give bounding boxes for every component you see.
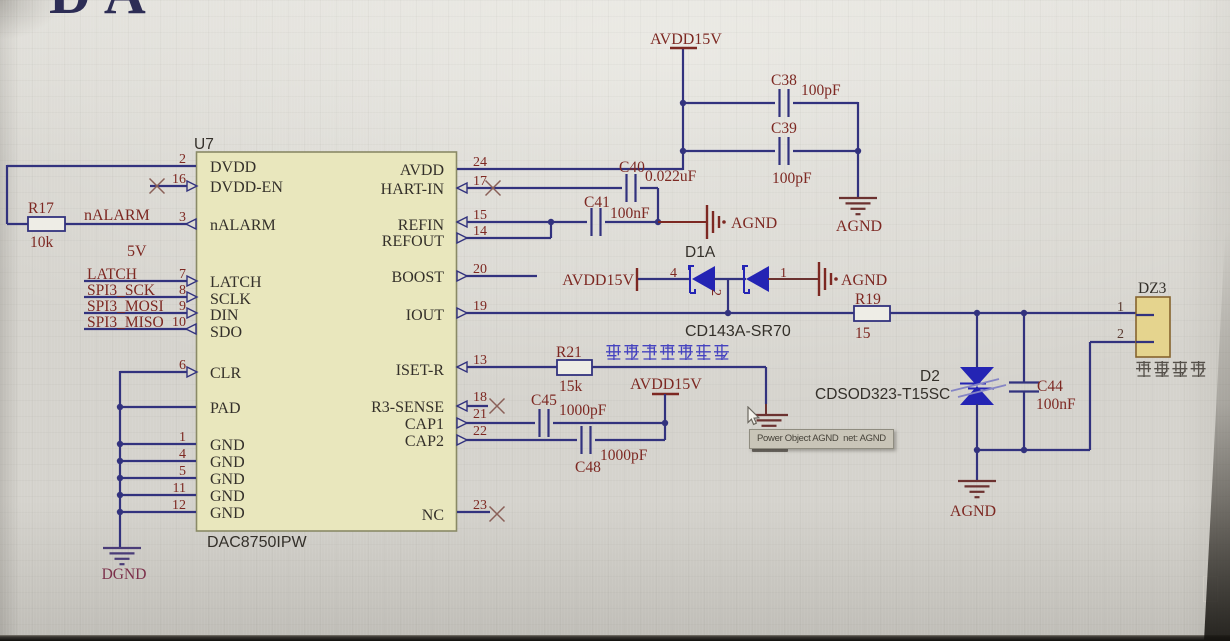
svg-text:SDO: SDO bbox=[210, 324, 242, 341]
wire R17 to pin3 nALARM bbox=[65, 223, 196, 225]
junction AVDD/C38 bbox=[680, 100, 686, 106]
svg-text:GND: GND bbox=[210, 454, 245, 471]
value DAC8750IPW bbox=[207, 534, 307, 551]
svg-text:7: 7 bbox=[179, 267, 186, 282]
svg-text:20: 20 bbox=[473, 262, 487, 277]
R17 value 10k bbox=[30, 234, 54, 251]
pin15 input arrow bbox=[457, 217, 467, 227]
net label SPI3_SCK bbox=[87, 282, 156, 299]
junction IOUT/D2 bbox=[974, 310, 980, 316]
resistor R19 bbox=[854, 306, 890, 321]
svg-text:DGND: DGND bbox=[102, 566, 147, 583]
svg-text:NC: NC bbox=[422, 507, 444, 524]
connector DZ3 body bbox=[1136, 297, 1170, 357]
AGND label top right bbox=[836, 218, 882, 235]
net label SPI3_MOSI bbox=[87, 298, 164, 315]
R17 designator bbox=[28, 200, 54, 217]
svg-text:ISET-R: ISET-R bbox=[396, 362, 445, 379]
designator U7 bbox=[194, 136, 214, 153]
svg-text:18: 18 bbox=[473, 390, 487, 405]
svg-text:100nF: 100nF bbox=[610, 205, 650, 222]
pin22 output arrow bbox=[457, 435, 467, 445]
wire pin19 IOUT long bbox=[457, 312, 1136, 314]
power port AVDD15V top bbox=[650, 31, 722, 48]
capacitor C44 (vertical) bbox=[1009, 313, 1039, 450]
R21 designator bbox=[556, 344, 582, 361]
R21 value 15k bbox=[559, 378, 583, 395]
svg-text:4: 4 bbox=[670, 266, 677, 281]
mouse cursor bbox=[746, 406, 766, 430]
tooltip Power Object AGND bbox=[749, 429, 894, 449]
svg-text:IOUT: IOUT bbox=[406, 307, 444, 324]
wire pin23 NC stub bbox=[457, 511, 490, 513]
svg-text:R19: R19 bbox=[855, 291, 881, 308]
net label LATCH bbox=[87, 266, 137, 283]
svg-text:24: 24 bbox=[473, 155, 487, 170]
svg-text:GND: GND bbox=[210, 488, 245, 505]
ground bus vertical wire bbox=[119, 371, 121, 548]
D1A pin2 number (rotated) bbox=[708, 289, 723, 296]
svg-text:nALARM: nALARM bbox=[210, 217, 276, 234]
svg-text:REFIN: REFIN bbox=[398, 217, 445, 234]
R19 value 15 bbox=[855, 325, 871, 342]
svg-text:17: 17 bbox=[473, 174, 487, 189]
DZ3 pin1 stub bbox=[1136, 314, 1154, 316]
U7 left pin numbers bbox=[172, 152, 186, 513]
svg-text:DVDD-EN: DVDD-EN bbox=[210, 179, 283, 196]
resistor R21 bbox=[557, 360, 592, 375]
svg-text:10: 10 bbox=[172, 315, 186, 330]
wire D2 stem bottom bbox=[976, 404, 978, 450]
svg-text:9: 9 bbox=[179, 299, 186, 314]
svg-text:15: 15 bbox=[855, 325, 871, 342]
svg-text:14: 14 bbox=[473, 224, 487, 239]
svg-text:3: 3 bbox=[179, 210, 186, 225]
pin18 input arrow bbox=[457, 401, 467, 411]
svg-text:1000pF: 1000pF bbox=[600, 447, 648, 464]
wire AVDD15V stem to caps bbox=[664, 394, 666, 440]
svg-text:U7: U7 bbox=[194, 136, 214, 153]
svg-text:10k: 10k bbox=[30, 234, 54, 251]
C41 value 100nF bbox=[610, 205, 650, 222]
AGND label (D1A row) bbox=[841, 272, 887, 289]
pin19 output arrow bbox=[457, 308, 467, 318]
wire pin6 CLR bbox=[120, 371, 196, 373]
svg-text:GND: GND bbox=[210, 505, 245, 522]
ground AGND (under cursor) bbox=[750, 415, 788, 431]
TVS diode D2 bbox=[951, 367, 1006, 405]
svg-text:nALARM: nALARM bbox=[84, 207, 150, 224]
C45 designator bbox=[531, 392, 557, 409]
svg-text:12: 12 bbox=[172, 498, 186, 513]
wire GND pin 5 bbox=[120, 477, 196, 479]
svg-text:AGND: AGND bbox=[841, 272, 887, 289]
svg-text:SPI3_SCK: SPI3_SCK bbox=[87, 282, 156, 299]
D1A pin4 number bbox=[670, 266, 677, 281]
wire pin21 CAP1 bbox=[457, 422, 665, 424]
pin3 output arrow bbox=[186, 219, 196, 229]
wire R21 to AGND bbox=[592, 367, 766, 414]
junction GND pin 12 bbox=[117, 509, 123, 515]
U7 right pin numbers bbox=[473, 155, 487, 513]
U7 left pin names bbox=[210, 159, 283, 522]
wire pin18 R3-SENSE stub bbox=[457, 405, 488, 407]
svg-text:16: 16 bbox=[172, 172, 186, 187]
C48 designator bbox=[575, 459, 601, 476]
diode D1A left half bbox=[689, 265, 715, 293]
wire net SPI3_MOSI to pin bbox=[84, 312, 196, 314]
wire AVDD15V to D1A bbox=[638, 278, 690, 280]
wire net SPI3_MISO to pin bbox=[84, 328, 196, 330]
svg-text:D2: D2 bbox=[920, 368, 940, 385]
svg-text:DZ3: DZ3 bbox=[1138, 280, 1167, 297]
wire GND pin 12 bbox=[120, 511, 196, 513]
IC U7 DAC8750IPW body bbox=[197, 152, 457, 531]
svg-text:22: 22 bbox=[473, 424, 487, 439]
net label nALARM bbox=[84, 207, 150, 224]
junction PAD bbox=[117, 404, 123, 410]
svg-text:6: 6 bbox=[179, 358, 186, 373]
D1A value CD143A-SR70 bbox=[685, 323, 791, 340]
svg-text:AVDD15V: AVDD15V bbox=[562, 272, 634, 289]
D2 designator bbox=[920, 368, 940, 385]
svg-text:15k: 15k bbox=[559, 378, 583, 395]
svg-text:R17: R17 bbox=[28, 200, 54, 217]
svg-text:100nF: 100nF bbox=[1036, 396, 1076, 413]
svg-text:AGND: AGND bbox=[836, 218, 882, 235]
svg-text:C45: C45 bbox=[531, 392, 557, 409]
svg-text:CDSOD323-T15SC: CDSOD323-T15SC bbox=[815, 386, 950, 403]
svg-text:AVDD15V: AVDD15V bbox=[630, 376, 702, 393]
svg-text:0.022uF: 0.022uF bbox=[645, 168, 697, 185]
svg-text:BOOST: BOOST bbox=[392, 269, 445, 286]
DZ3 pin2 number bbox=[1117, 327, 1124, 342]
svg-text:C40: C40 bbox=[619, 159, 645, 176]
svg-text:CAP2: CAP2 bbox=[405, 433, 444, 450]
junction CAP1/AVDD15V bbox=[662, 420, 668, 426]
junction REFIN/REFOUT bbox=[548, 219, 554, 225]
hidden net label under tooltip bbox=[752, 448, 788, 452]
wire caps to AGND bbox=[857, 102, 859, 198]
pin20 output arrow bbox=[457, 271, 467, 281]
wire D1A middle node bbox=[714, 279, 746, 313]
wire net SPI3_SCK to pin bbox=[84, 296, 196, 298]
capacitor C40 bbox=[627, 174, 636, 202]
wire GND pin 4 bbox=[120, 460, 196, 462]
svg-text:D1A: D1A bbox=[685, 244, 716, 261]
svg-text:2: 2 bbox=[708, 289, 723, 296]
junction IOUT/C44 bbox=[1021, 310, 1027, 316]
junction GND pin 5 bbox=[117, 475, 123, 481]
svg-text:LATCH: LATCH bbox=[210, 274, 262, 291]
junction C40 drop bbox=[655, 219, 661, 225]
ground AGND top right bbox=[839, 198, 877, 214]
wire pin17 HART-IN to C40 bbox=[457, 187, 622, 189]
no-ERC cross pin16 bbox=[150, 179, 165, 194]
wire C39 row bbox=[683, 150, 858, 152]
diode D1A right half bbox=[743, 265, 769, 293]
junction D1A/IOUT bbox=[725, 310, 731, 316]
svg-text:100pF: 100pF bbox=[801, 82, 841, 99]
no-ERC cross pin23 bbox=[490, 507, 505, 522]
svg-text:DVDD: DVDD bbox=[210, 159, 256, 176]
pin16 input arrow bbox=[187, 181, 197, 191]
svg-text:4: 4 bbox=[179, 447, 186, 462]
net label SPI3_MISO bbox=[87, 314, 164, 331]
pin6 input arrow bbox=[187, 367, 197, 377]
svg-text:AVDD15V: AVDD15V bbox=[650, 31, 722, 48]
svg-text:1000pF: 1000pF bbox=[559, 402, 607, 419]
input arrow DIN bbox=[187, 308, 197, 318]
wire GND pin 1 bbox=[120, 443, 196, 445]
svg-text:SPI3_MISO: SPI3_MISO bbox=[87, 314, 164, 331]
svg-text:SPI3_MOSI: SPI3_MOSI bbox=[87, 298, 164, 315]
svg-text:1: 1 bbox=[179, 430, 186, 445]
wire pin22 CAP2 bbox=[457, 439, 665, 441]
svg-text:2: 2 bbox=[1117, 327, 1124, 342]
capacitor C41 bbox=[592, 208, 601, 236]
C44 value 100nF bbox=[1036, 396, 1076, 413]
wire to AGND port (maroon) bbox=[658, 221, 706, 223]
svg-text:C38: C38 bbox=[771, 72, 797, 89]
svg-text:AVDD: AVDD bbox=[400, 162, 444, 179]
capacitor C48 bbox=[582, 426, 591, 454]
svg-text:1: 1 bbox=[1117, 300, 1124, 315]
input arrow SCLK bbox=[187, 292, 197, 302]
pin14 output arrow bbox=[457, 233, 467, 243]
wire C40 down to REFIN net bbox=[640, 188, 658, 222]
AGND label (REFIN row) bbox=[731, 215, 777, 232]
wire GND pin 11 bbox=[120, 494, 196, 496]
capacitor C38 bbox=[780, 89, 789, 117]
wire pin14 REFOUT bbox=[457, 222, 551, 238]
svg-text:2: 2 bbox=[179, 152, 186, 167]
junction GND pin 1 bbox=[117, 441, 123, 447]
resistor R17 bbox=[28, 217, 65, 231]
wire pin16 DVDD-EN stub bbox=[150, 185, 196, 187]
svg-text:5V: 5V bbox=[127, 243, 147, 260]
D1A pin1 number bbox=[780, 266, 787, 281]
DZ3 pin1 number bbox=[1117, 300, 1124, 315]
C41 designator bbox=[584, 194, 610, 211]
svg-text:DAC8750IPW: DAC8750IPW bbox=[207, 534, 307, 551]
svg-text:LATCH: LATCH bbox=[87, 266, 137, 283]
junction D2 bottom bbox=[974, 447, 980, 453]
wire pin24 AVDD to AVDD15V bbox=[457, 48, 683, 170]
ground AGND rotated (REFIN row) bbox=[707, 205, 726, 239]
wire pin20 BOOST stub bbox=[457, 275, 537, 277]
svg-text:DIN: DIN bbox=[210, 307, 239, 324]
wire pin2 DVDD loop to R17 bbox=[7, 165, 196, 224]
C39 value 100pF bbox=[772, 170, 812, 187]
DGND label bbox=[102, 566, 147, 583]
no-ERC cross pin17 bbox=[486, 181, 501, 196]
svg-text:100pF: 100pF bbox=[772, 170, 812, 187]
wire net LATCH to pin bbox=[84, 280, 196, 282]
junction GND pin 4 bbox=[117, 458, 123, 464]
svg-text:CD143A-SR70: CD143A-SR70 bbox=[685, 323, 791, 340]
C48 value 1000pF bbox=[600, 447, 648, 464]
input arrow LATCH bbox=[187, 276, 197, 286]
C44 designator bbox=[1037, 378, 1063, 395]
svg-text:5: 5 bbox=[179, 464, 186, 479]
svg-text:CLR: CLR bbox=[210, 365, 241, 382]
C40 value 0.022uF bbox=[645, 168, 697, 185]
power port 5V bbox=[127, 243, 147, 260]
junction AVDD/C39 bbox=[680, 148, 686, 154]
U7 right pin names bbox=[371, 162, 444, 524]
svg-text:AGND: AGND bbox=[950, 503, 996, 520]
ground AGND rotated (D1A row) bbox=[819, 262, 838, 296]
C39 designator bbox=[771, 120, 797, 137]
power port AVDD15V (D1A row) bbox=[562, 268, 637, 291]
svg-text:PAD: PAD bbox=[210, 400, 241, 417]
note text low-drift precision resistor bbox=[606, 344, 729, 360]
wire pin13 ISET-R to R21 bbox=[457, 366, 557, 368]
svg-text:15: 15 bbox=[473, 208, 487, 223]
C38 designator bbox=[771, 72, 797, 89]
svg-text:C41: C41 bbox=[584, 194, 610, 211]
DZ3 designator bbox=[1138, 280, 1167, 297]
svg-text:AGND: AGND bbox=[731, 215, 777, 232]
svg-text:SCLK: SCLK bbox=[210, 291, 251, 308]
screen logo DA bbox=[49, 0, 159, 27]
pin21 output arrow bbox=[457, 418, 467, 428]
wire PAD bbox=[120, 406, 196, 408]
no-ERC cross pin18 bbox=[490, 399, 505, 414]
svg-text:8: 8 bbox=[179, 283, 186, 298]
svg-text:23: 23 bbox=[473, 498, 487, 513]
D2 value CDSOD323-T15SC bbox=[815, 386, 950, 403]
svg-text:C44: C44 bbox=[1037, 378, 1063, 395]
capacitor C39 bbox=[780, 137, 789, 165]
junction GND pin 11 bbox=[117, 492, 123, 498]
svg-text:R3-SENSE: R3-SENSE bbox=[371, 399, 444, 416]
DZ3 pin2 stub bbox=[1136, 341, 1154, 343]
ground DGND bbox=[103, 548, 141, 564]
svg-text:11: 11 bbox=[173, 481, 186, 496]
svg-text:CAP1: CAP1 bbox=[405, 416, 444, 433]
DZ3 value terminal-block bbox=[1136, 361, 1206, 377]
junction C44 bottom bbox=[1021, 447, 1027, 453]
svg-text:13: 13 bbox=[473, 353, 487, 368]
C38 value 100pF bbox=[801, 82, 841, 99]
junction C38/C39 right bbox=[855, 148, 861, 154]
power port AVDD15V (CAP row) bbox=[630, 376, 702, 394]
svg-text:GND: GND bbox=[210, 437, 245, 454]
svg-text:21: 21 bbox=[473, 407, 487, 422]
pin13 input arrow bbox=[457, 362, 467, 372]
svg-text:HART-IN: HART-IN bbox=[381, 181, 445, 198]
svg-text:C39: C39 bbox=[771, 120, 797, 137]
AGND label bottom right bbox=[950, 503, 996, 520]
D1A designator bbox=[685, 244, 716, 261]
wire bottom net to DZ3 pin2 bbox=[976, 342, 1136, 450]
wire D1A pin1 to AGND (maroon) bbox=[768, 278, 818, 280]
R19 designator bbox=[855, 291, 881, 308]
pin10 output arrow bbox=[186, 324, 196, 334]
ground AGND bottom right bbox=[958, 450, 996, 497]
svg-text:REFOUT: REFOUT bbox=[382, 233, 444, 250]
svg-text:GND: GND bbox=[210, 471, 245, 488]
C40 designator bbox=[619, 159, 645, 176]
capacitor C45 bbox=[540, 409, 549, 437]
C45 value 1000pF bbox=[559, 402, 607, 419]
wire D2 stem top bbox=[976, 313, 978, 368]
wire pin15 REFIN row bbox=[457, 221, 657, 223]
svg-text:C48: C48 bbox=[575, 459, 601, 476]
svg-text:19: 19 bbox=[473, 299, 487, 314]
wire C38 row bbox=[683, 102, 858, 104]
pin17 input arrow bbox=[457, 183, 467, 193]
svg-text:R21: R21 bbox=[556, 344, 582, 361]
